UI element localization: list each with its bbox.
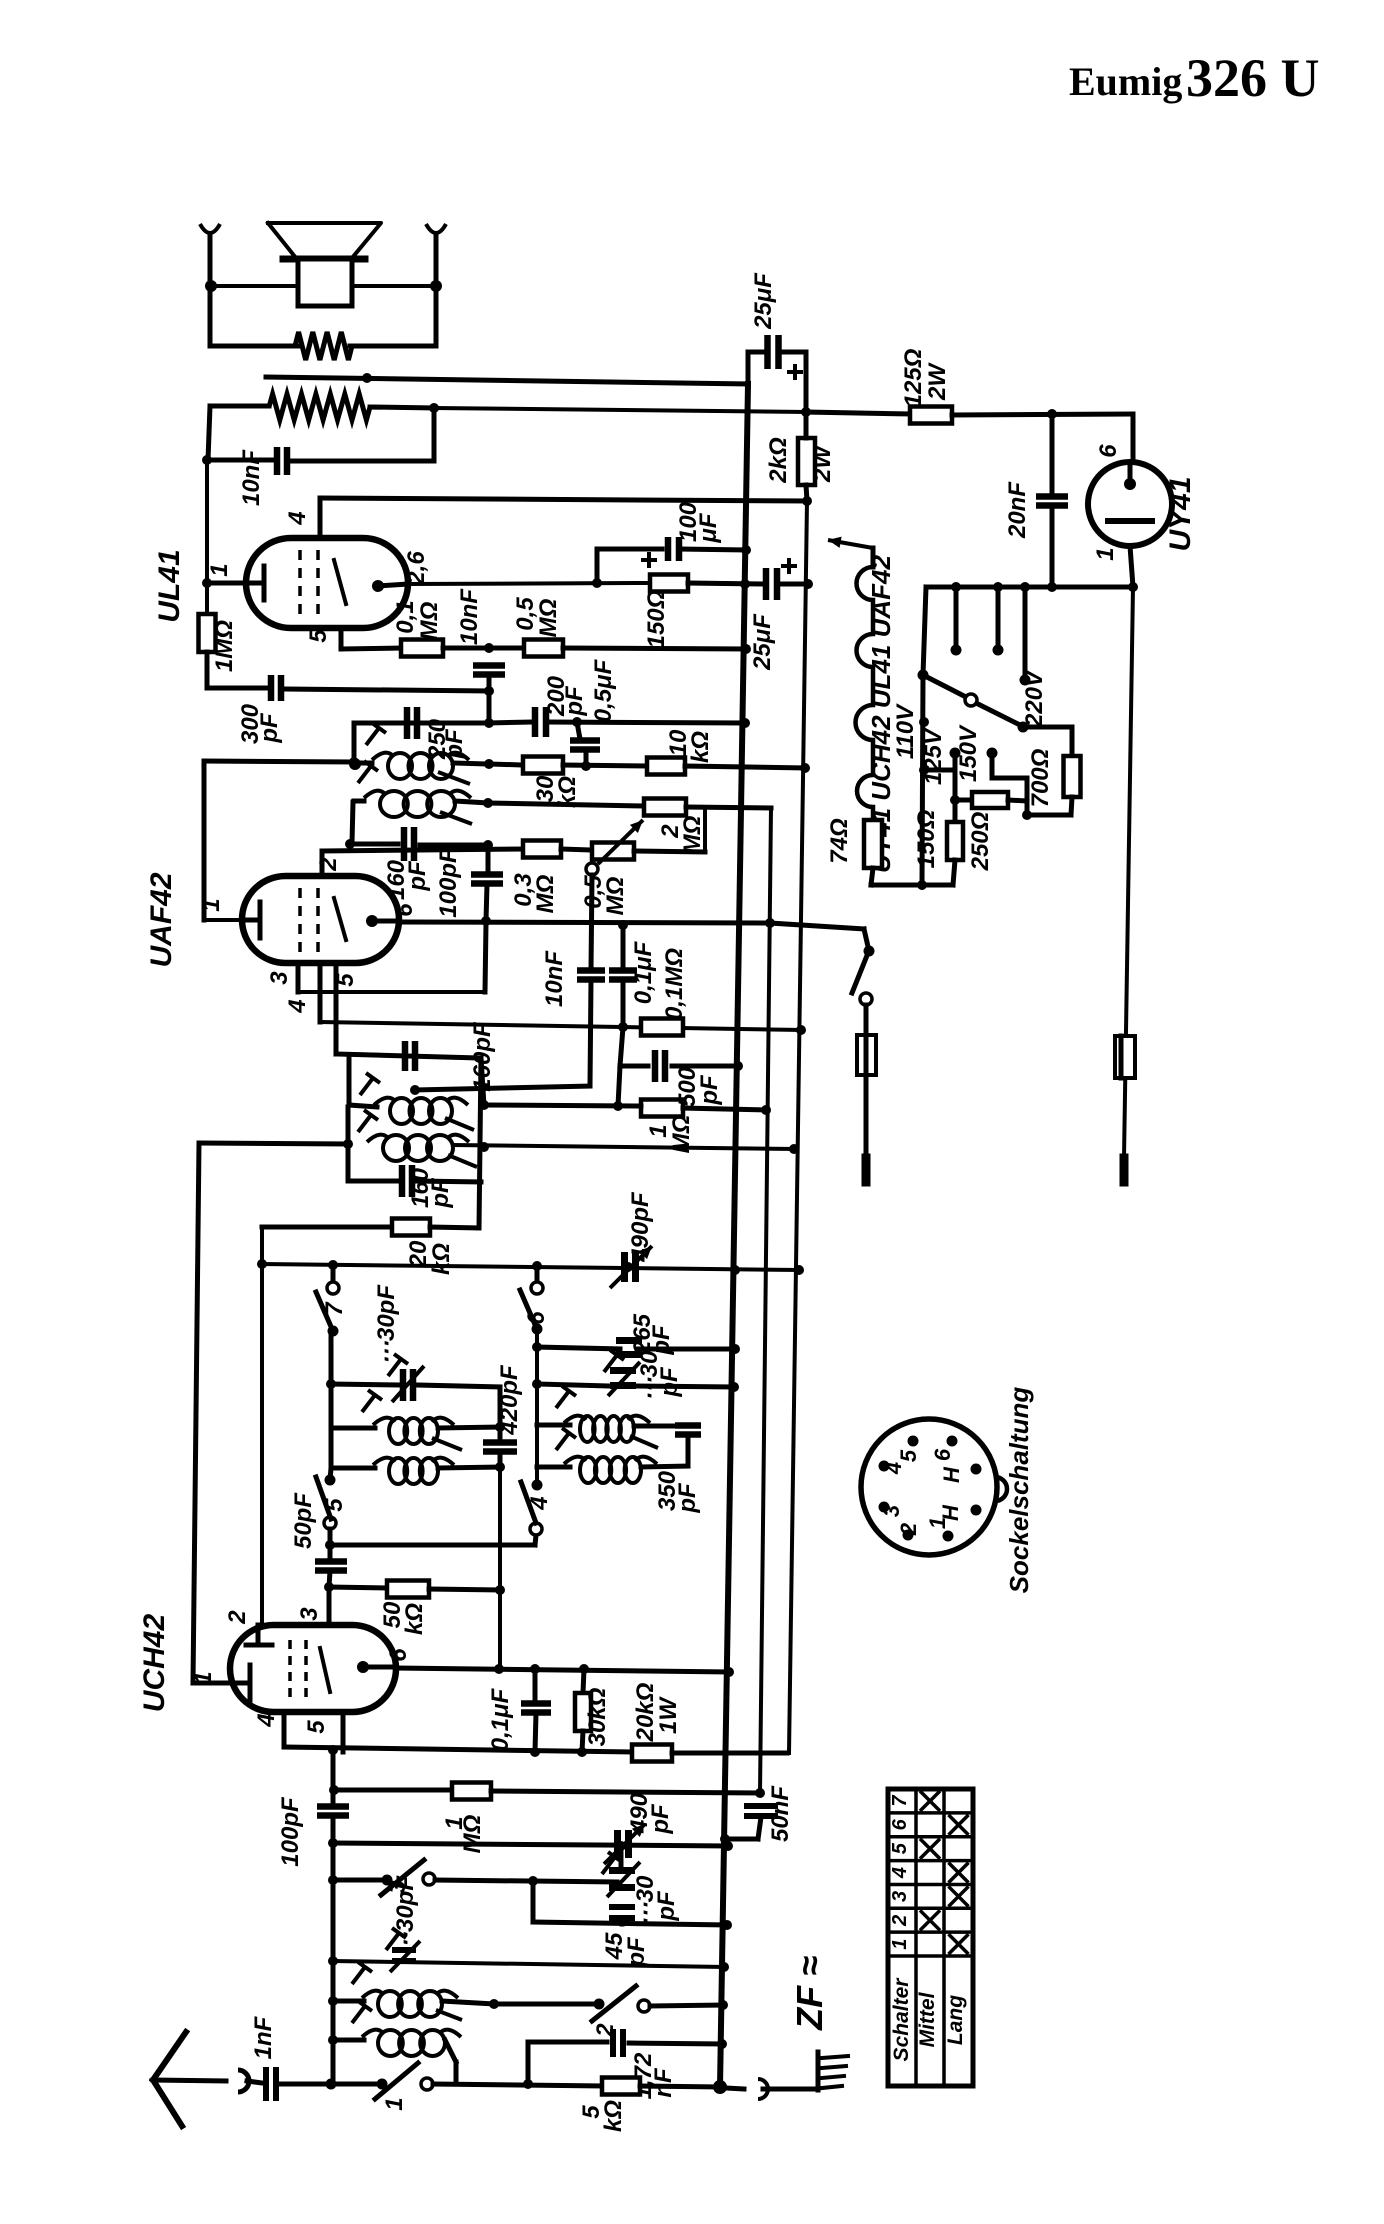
svg-text:20nF: 20nF (1004, 481, 1031, 539)
mains terminal right (1120, 1158, 1129, 1182)
resistor 5k&#937; (602, 2078, 640, 2095)
capacitor 10nF (coupling) (473, 662, 505, 669)
coil ant LW (537, 1465, 570, 1470)
wire pin3 line (298, 990, 485, 994)
resistor 700&#937; (1023, 725, 1072, 730)
wire plate line UL41 (408, 583, 650, 584)
svg-text:2: 2 (224, 1610, 251, 1625)
capacitor 45pF (609, 1904, 635, 1910)
svg-text:0,1MΩ: 0,1MΩ (661, 948, 688, 1020)
resistor 0,5M&#937; (524, 640, 563, 657)
UL41 internals (246, 581, 264, 586)
svg-text:2,6: 2,6 (403, 551, 430, 586)
switch 1 (377, 2079, 388, 2090)
voice-coil resistor (210, 344, 298, 349)
svg-text:pF: pF (674, 1482, 701, 1514)
heater chain (856, 548, 874, 820)
coil osc MW (331, 1426, 375, 1431)
svg-text:1: 1 (925, 1517, 950, 1529)
wire left column UL41 grid (208, 406, 210, 460)
svg-text:0,1μF: 0,1μF (487, 1687, 514, 1751)
svg-text:1: 1 (206, 563, 233, 576)
wire UCH42 pin2 column (260, 1227, 264, 1625)
capacitor 50nF (744, 1803, 778, 1809)
wire line B (434, 408, 806, 412)
capacitor 100uF (595, 549, 600, 583)
node speaker right (430, 280, 442, 292)
svg-text:6: 6 (889, 1818, 911, 1830)
svg-text:H: H (939, 1466, 964, 1483)
svg-text:2W: 2W (809, 444, 836, 483)
svg-text:7: 7 (889, 1795, 911, 1807)
table X marks (920, 1791, 940, 1811)
node speaker left (205, 280, 217, 292)
svg-text:pF: pF (656, 1366, 683, 1398)
rail 3 (789, 501, 807, 1753)
svg-text:30kΩ: 30kΩ (584, 1687, 611, 1746)
coil osc MW (389, 1418, 407, 1444)
svg-text:Eumig: Eumig (1069, 59, 1182, 104)
trimmer ...30pF osc (switch7 branch) (329, 1331, 334, 1428)
resistor 0,1M&#937; (341, 648, 401, 649)
switch 3 (333, 1878, 387, 1883)
capacitor 50pF (315, 1558, 347, 1565)
coil IF3 primary (388, 753, 412, 779)
coil ant input LW (333, 2038, 364, 2043)
socket Sockelschaltung (861, 1419, 997, 1555)
wire 100pF column cont (331, 1843, 336, 2084)
svg-text:UY41: UY41 (1164, 476, 1197, 551)
svg-text:2: 2 (315, 857, 342, 872)
svg-text:2: 2 (889, 1915, 911, 1927)
wire AGC column (193, 1143, 199, 1683)
switch table (888, 1789, 973, 2086)
output transformer primary (zigzag) (210, 404, 269, 409)
resistor 2M&#937; (AVC) (488, 803, 644, 806)
svg-text:2: 2 (896, 1522, 921, 1536)
svg-text:420pF: 420pF (496, 1364, 523, 1436)
svg-text:UL41: UL41 (153, 549, 186, 622)
node AVC line (349, 758, 361, 770)
svg-text:3: 3 (889, 1891, 911, 1902)
coil osc B (199, 1143, 348, 1144)
svg-text:100pF: 100pF (277, 1796, 304, 1867)
plate dot UAF42 (366, 915, 378, 927)
svg-text:MΩ: MΩ (416, 601, 443, 640)
tube UY41 rectifier (1131, 414, 1136, 462)
switch 6 (535, 1266, 540, 1286)
svg-text:0,5μF: 0,5μF (590, 658, 617, 722)
resistor 1M&#937; diode load (641, 1100, 683, 1117)
wire (479, 1058, 481, 1228)
capacitor 350pF (675, 1422, 701, 1429)
coil ant MW (537, 1423, 570, 1428)
wire osc section column (535, 1329, 539, 1485)
svg-text:Sockelschaltung: Sockelschaltung (1004, 1387, 1034, 1594)
svg-text:10nF: 10nF (456, 588, 483, 645)
node 300pF line (484, 686, 494, 696)
coil ant MW (580, 1416, 595, 1442)
wire 100pF column (331, 1750, 336, 1802)
svg-text:kΩ: kΩ (687, 731, 714, 763)
speaker terminal right (426, 224, 446, 233)
svg-text:490pF: 490pF (627, 1191, 654, 1263)
wire coil B to rail (453, 1145, 794, 1149)
svg-text:7: 7 (321, 1301, 348, 1316)
coil osc A (347, 1057, 352, 1105)
tube UCH42 (230, 1625, 396, 1712)
resistor 1M&#937; (334, 1788, 452, 1793)
svg-text:125Ω: 125Ω (900, 348, 927, 407)
svg-text:⋯30pF: ⋯30pF (392, 1875, 419, 1956)
switch 7 (331, 1265, 336, 1286)
capacitor 160pF (osc grid) (348, 1179, 398, 1184)
svg-text:4: 4 (889, 1867, 911, 1879)
svg-text:150V: 150V (955, 724, 982, 782)
svg-text:250Ω: 250Ω (967, 811, 994, 871)
variable capacitor 490pF ant (614, 1830, 621, 1858)
svg-text:pF: pF (696, 1074, 723, 1106)
pot wiper (586, 863, 598, 875)
125V tap (950, 748, 961, 759)
resistor 150&#937; (947, 822, 963, 860)
capacitor 160pF (354, 842, 398, 847)
cathode dot (1124, 478, 1136, 490)
plate bar (1108, 518, 1152, 524)
detector load: 500pF + 1M&#937; (620, 1027, 623, 1066)
capacitor 265pF (537, 1347, 620, 1349)
svg-text:nF: nF (650, 2067, 677, 2098)
resistor 20k&#937; (262, 1225, 392, 1230)
plate dot UCH42 (357, 1661, 369, 1673)
svg-text:6: 6 (1095, 444, 1122, 458)
wire grid column (205, 460, 209, 614)
tube UAF42 (242, 876, 399, 963)
resistor 20k&#937; 1W (632, 1745, 672, 1762)
svg-text:pF: pF (623, 1936, 650, 1968)
coil osc B (383, 1135, 409, 1161)
svg-text:kΩ: kΩ (600, 2100, 627, 2132)
capacitor 10nF (AF coupling) (591, 875, 592, 970)
antenna (153, 2032, 186, 2080)
svg-text:MΩ: MΩ (535, 598, 562, 637)
resistor 125&#937; 2W (806, 412, 910, 414)
node B+ rail (740, 579, 750, 589)
svg-text:μF: μF (695, 512, 722, 543)
110V column (922, 675, 923, 885)
capacitor 25uF (cathode block) (763, 568, 770, 600)
svg-text:50pF: 50pF (290, 1492, 317, 1549)
svg-text:110V: 110V (892, 703, 919, 759)
svg-text:125V: 125V (920, 727, 947, 785)
UCH42 internals (230, 1681, 250, 1686)
capacitor 10nF (tone) (208, 458, 272, 463)
wire AVC to pin1 (202, 761, 207, 920)
pin 5 UL41 (339, 628, 344, 649)
svg-text:4: 4 (526, 1496, 553, 1510)
capacitor 20nF (1050, 414, 1055, 492)
svg-text:UCH42: UCH42 (138, 1614, 171, 1713)
svg-text:1: 1 (1092, 547, 1119, 560)
svg-text:2W: 2W (924, 362, 951, 401)
wire bus trimmer lw (333, 1961, 724, 1967)
svg-text:25μF: 25μF (749, 613, 776, 671)
svg-text:2kΩ: 2kΩ (765, 437, 792, 484)
coil input MW (378, 1991, 402, 2017)
resistor 0,3M&#937; (322, 849, 523, 851)
wire pin1 (207, 581, 246, 586)
resistor 74&#937; (864, 820, 882, 868)
capacitor 0,1uF (618, 920, 628, 930)
svg-text:MΩ: MΩ (679, 815, 706, 854)
wire pot to AVC (703, 808, 707, 850)
pin 4 UL41 (318, 498, 323, 538)
svg-text:5: 5 (303, 1720, 330, 1734)
capacitor 25uF main filter (746, 352, 751, 384)
ground (816, 2052, 821, 2090)
svg-text:ZF ≈: ZF ≈ (789, 1956, 830, 2031)
pin 2 UAF42 (320, 851, 325, 876)
svg-text:pF: pF (256, 712, 283, 744)
svg-text:pF: pF (653, 1890, 680, 1922)
svg-text:pF: pF (427, 1177, 454, 1209)
svg-text:1MΩ: 1MΩ (211, 620, 238, 672)
wire to mains switch (770, 923, 864, 929)
svg-text:kΩ: kΩ (401, 1603, 428, 1635)
svg-text:10nF: 10nF (238, 449, 265, 506)
coil osc A (390, 1098, 413, 1124)
pin 6 line UAF42 (399, 922, 770, 923)
capacitor 100pF (471, 871, 503, 878)
svg-text:6: 6 (930, 1448, 955, 1461)
coil IF3 primary (354, 761, 372, 766)
wire detector line (484, 1105, 641, 1106)
wire speaker left (210, 284, 296, 288)
switch 5 (325, 1475, 336, 1486)
svg-text:pF: pF (561, 685, 588, 717)
wire B+ rail 1 (720, 384, 748, 2087)
node primary right (429, 403, 439, 413)
plate dot (372, 580, 384, 592)
svg-text:⋯30pF: ⋯30pF (373, 1284, 400, 1365)
svg-text:150Ω: 150Ω (643, 589, 670, 648)
resistor 150 ohm (650, 575, 688, 592)
svg-text:5: 5 (305, 629, 332, 643)
svg-text:pF: pF (647, 1803, 674, 1835)
svg-text:MΩ: MΩ (532, 874, 559, 913)
wire 45pF line (531, 1881, 536, 1922)
svg-text:Mittel: Mittel (916, 1991, 939, 2047)
resistor 250&#937; (955, 798, 972, 803)
svg-text:326 U: 326 U (1186, 48, 1320, 108)
svg-text:100pF: 100pF (435, 847, 462, 918)
svg-text:150Ω: 150Ω (913, 809, 940, 868)
svg-text:4: 4 (881, 1462, 906, 1475)
bottom line pins 4/5 (282, 1712, 287, 1747)
svg-text:700Ω: 700Ω (1027, 748, 1054, 807)
svg-text:10nF: 10nF (541, 950, 568, 1007)
node 250pF line (484, 718, 494, 728)
wire line A to B+ (266, 377, 748, 384)
resistor 30k&#937; (583, 1669, 584, 1693)
fuse left (857, 1035, 876, 1075)
capacitor 1nF (263, 2067, 269, 2101)
svg-text:6: 6 (523, 1311, 550, 1325)
trimmer ...30pF ant MW (609, 1867, 635, 1874)
capacitor 200pF (489, 722, 530, 723)
wire pin1 UCH42 (193, 1681, 230, 1686)
coil ant LW (580, 1457, 596, 1483)
wire osc grid column (498, 1467, 502, 1669)
svg-text:pF: pF (404, 860, 431, 892)
potentiometer 0,5M&#937; volume (561, 849, 592, 850)
capacitor 420pF (483, 1439, 517, 1446)
IF transformer T3 box (354, 721, 489, 726)
svg-text:MΩ: MΩ (459, 1814, 486, 1853)
switch 4 (530, 1523, 542, 1535)
trimmer ...30pF osc MW (537, 1384, 611, 1386)
tube UL41 (246, 538, 408, 628)
svg-text:MΩ: MΩ (602, 876, 629, 915)
pin1 UY41 down (1130, 546, 1133, 587)
resistor 50k&#937; (329, 1587, 387, 1588)
resistor 0,1M&#937; (641, 1019, 683, 1036)
variable capacitor 490pF osc (621, 1252, 628, 1282)
capacitor 0,1uF cathode (533, 1669, 538, 1702)
resistor 10k&#937; (647, 758, 685, 775)
wire 160pF line to tap (415, 1086, 590, 1090)
capacitor 1,72nF (528, 2040, 607, 2045)
coil osc LW (389, 1458, 407, 1484)
mains terminal left (862, 1158, 871, 1182)
svg-text:kΩ: kΩ (428, 1243, 455, 1275)
svg-text:3: 3 (296, 1607, 323, 1621)
speaker terminal left (200, 224, 220, 233)
rail 2 (AVC) (760, 808, 771, 1793)
wire pin4 line (320, 1022, 801, 1030)
svg-text:4: 4 (284, 999, 311, 1013)
wire pin3 (327, 1587, 332, 1625)
capacitor 100pF (317, 1803, 349, 1810)
capacitor 160pF osc (336, 1054, 481, 1058)
loudspeaker (268, 223, 381, 258)
wire to switch 4 (330, 1543, 535, 1548)
svg-text:0,1μF: 0,1μF (630, 940, 657, 1004)
node screen (592, 578, 602, 588)
svg-text:Schalter: Schalter (890, 1977, 913, 2062)
svg-text:6: 6 (385, 1648, 412, 1662)
pin6 line UCH42 (396, 1668, 729, 1672)
node on line A (362, 373, 372, 383)
svg-text:1: 1 (889, 1939, 911, 1950)
coil osc LW (329, 1428, 334, 1468)
svg-text:3: 3 (879, 1505, 904, 1517)
svg-text:0,1: 0,1 (392, 600, 419, 633)
svg-text:50nF: 50nF (767, 1785, 794, 1842)
node (202, 455, 212, 465)
ground connector (726, 2088, 744, 2089)
node 10nF (484, 643, 494, 653)
svg-text:25μF: 25μF (750, 272, 777, 330)
resistor 1M&#937; grid UL41 (199, 614, 216, 652)
resistor 30k&#937; (489, 764, 523, 765)
svg-text:5: 5 (889, 1842, 911, 1854)
capacitor 300pF (207, 686, 266, 691)
UAF42 internals (242, 918, 260, 923)
fuse right (1115, 1036, 1135, 1078)
wire tuning bus (262, 1264, 799, 1270)
svg-text:3: 3 (266, 971, 293, 985)
selector lever (923, 587, 926, 675)
wire pin1 UAF42 (204, 918, 242, 922)
svg-text:UAF42: UAF42 (145, 872, 178, 967)
svg-text:220V: 220V (1021, 669, 1048, 728)
heater line (926, 585, 1133, 590)
coil ant input MW (333, 1999, 364, 2004)
switch 2 (494, 2002, 599, 2007)
svg-text:1nF: 1nF (250, 2015, 277, 2059)
svg-text:5: 5 (321, 1498, 348, 1512)
resistor 2k&#937; 2W (798, 438, 815, 485)
coil input LW (378, 2030, 403, 2056)
capacitor 0,5uF (577, 722, 580, 739)
svg-text:Lang: Lang (944, 1995, 967, 2045)
bus 490pF ant (333, 1843, 728, 1846)
svg-text:1W: 1W (655, 1696, 682, 1734)
svg-text:6: 6 (391, 903, 418, 917)
svg-text:1: 1 (381, 2097, 408, 2110)
wire mains lead right (1124, 587, 1133, 1158)
150V tap (987, 748, 998, 759)
svg-text:5: 5 (896, 1449, 921, 1462)
coil IF3 secondary (380, 791, 408, 817)
selector prongs (954, 587, 959, 645)
svg-text:74Ω: 74Ω (826, 818, 853, 864)
wire speaker right (352, 284, 436, 288)
svg-text:4: 4 (284, 511, 311, 525)
svg-text:4: 4 (253, 1713, 280, 1727)
ground node (713, 2080, 727, 2094)
capacitor 250pF (404, 707, 411, 739)
